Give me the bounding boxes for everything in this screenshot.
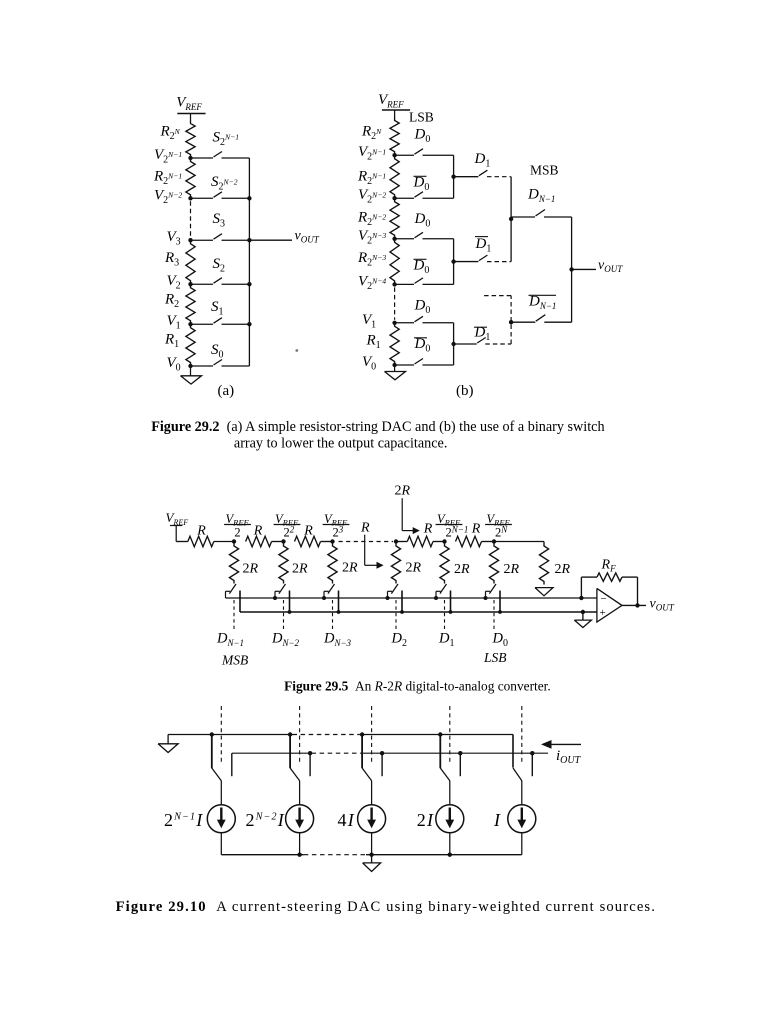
node VREF/2^(N-1) junction bbox=[442, 539, 446, 543]
arrow iOUT direction bbox=[548, 743, 582, 745]
switch D0 third bbox=[395, 322, 414, 324]
switch D1bar first bbox=[454, 261, 479, 263]
resistor R2N-1 (a) bbox=[186, 158, 195, 198]
resistor R second (R-2R) bbox=[246, 536, 272, 546]
node top bus junction cell 2 bbox=[288, 732, 292, 736]
node VREF/4 junction bbox=[281, 539, 285, 543]
svg-text:V2N−1: V2N−1 bbox=[358, 144, 386, 163]
node VREF/8 junction bbox=[330, 539, 334, 543]
wire group bar 2 (b) bbox=[453, 239, 455, 285]
wire upper bus (R-2R) bbox=[226, 597, 597, 599]
svg-text:DN−1: DN−1 bbox=[527, 186, 555, 204]
node junction dashed-solid (R-2R) bbox=[394, 539, 398, 543]
node vOUT junction (b) bbox=[569, 267, 573, 271]
resistor 2R bit N-2 bbox=[279, 542, 288, 584]
switch steering cell 4 bbox=[439, 735, 441, 769]
svg-text:2N: 2N bbox=[495, 525, 508, 540]
svg-text:22: 22 bbox=[284, 525, 295, 540]
wire VREF rail to resistor R2N bbox=[190, 114, 192, 121]
switch steering cell 1 bbox=[211, 735, 213, 769]
svg-text:V0: V0 bbox=[362, 354, 376, 373]
node VREF/2 junction bbox=[232, 539, 236, 543]
node iOUT bus junction cell 4 bbox=[458, 751, 462, 755]
wire dashed control line cell 5 bbox=[521, 706, 523, 762]
resistor R2N-2 bbox=[390, 198, 399, 239]
svg-text:D0: D0 bbox=[414, 127, 431, 146]
svg-text:+: + bbox=[600, 607, 606, 619]
resistor 2R terminating bbox=[539, 542, 548, 585]
svg-text:D1: D1 bbox=[474, 151, 491, 170]
svg-text:V2N−2: V2N−2 bbox=[358, 187, 386, 206]
wire to vOUT (b) bbox=[572, 268, 596, 270]
svg-text:2R: 2R bbox=[555, 562, 571, 577]
node output junction (R-2R) bbox=[635, 603, 639, 607]
ground terminating resistor bbox=[535, 588, 553, 596]
svg-text:D0: D0 bbox=[414, 211, 431, 230]
op-amp U1 bbox=[597, 588, 622, 622]
switch DN-1 bbox=[511, 216, 535, 218]
switch bit at x=332.5 (R-2R) bbox=[324, 590, 329, 592]
svg-text:V1: V1 bbox=[362, 312, 376, 331]
wire VREF rail to resistor R2N (b) bbox=[394, 110, 396, 117]
svg-text:2R: 2R bbox=[406, 561, 422, 576]
node V2N-3 junction bbox=[392, 237, 396, 241]
svg-text:R3: R3 bbox=[164, 250, 179, 269]
svg-text:V3: V3 bbox=[167, 229, 181, 248]
switch D0bar third bbox=[395, 364, 414, 366]
svg-text:S2N−2: S2N−2 bbox=[211, 174, 238, 193]
svg-text:Figure 29.2 (a) A simple resi: Figure 29.2 (a) A simple resistor-string… bbox=[151, 419, 604, 435]
ground bottom (29.10) bbox=[371, 855, 373, 863]
switch bit at x=444.5 (R-2R) bbox=[436, 590, 441, 592]
resistor R2 bbox=[186, 284, 195, 324]
wire current source to bottom bus cell 5 bbox=[521, 833, 523, 855]
svg-text:V0: V0 bbox=[167, 355, 181, 374]
junction dots lower bus bbox=[288, 610, 292, 614]
wire current source to bottom bus cell 1 bbox=[220, 833, 222, 855]
svg-text:D0: D0 bbox=[492, 631, 508, 650]
resistor R2N-1 (b) bbox=[390, 155, 399, 198]
wire feedback down to output bbox=[637, 577, 639, 605]
current source cell 2 bbox=[286, 805, 314, 833]
node V1 (a) junction bbox=[188, 322, 192, 326]
wire switch to current source cell 3 bbox=[371, 781, 373, 805]
wire dashed control line cell 3 bbox=[371, 706, 373, 762]
resistor 2R bit 1 bbox=[440, 542, 449, 584]
svg-text:R2N−1: R2N−1 bbox=[153, 168, 182, 187]
switch S2N-1 bbox=[191, 157, 214, 159]
wire switch to current source cell 1 bbox=[220, 781, 222, 805]
node group 3 output junction bbox=[451, 342, 455, 346]
wire bottom bus (29.10) bbox=[221, 854, 303, 856]
node V3 junction bbox=[188, 238, 192, 242]
svg-text:2R: 2R bbox=[342, 561, 358, 576]
svg-text:R: R bbox=[471, 522, 481, 537]
svg-text:2R: 2R bbox=[395, 484, 411, 499]
svg-text:D0: D0 bbox=[414, 298, 431, 317]
svg-text:VREF: VREF bbox=[378, 92, 404, 110]
svg-text:vOUT: vOUT bbox=[650, 597, 675, 613]
svg-text:R: R bbox=[196, 524, 206, 539]
ground (a) bbox=[190, 366, 192, 376]
switch bit at x=283.5 (R-2R) bbox=[275, 590, 280, 592]
svg-text:D0: D0 bbox=[413, 174, 430, 193]
svg-text:R2N: R2N bbox=[160, 124, 181, 143]
switch S1 bbox=[191, 323, 214, 325]
svg-text:V2N−4: V2N−4 bbox=[358, 273, 386, 292]
node V2N-1 (a) junction bbox=[188, 156, 192, 160]
svg-text:LSB: LSB bbox=[483, 650, 507, 665]
wire dashed control line at x=234 (R-2R) bbox=[233, 600, 235, 631]
svg-text:2N−1I: 2N−1I bbox=[164, 810, 203, 830]
switch S2 bbox=[191, 283, 214, 285]
junction dots on output bus (a) bbox=[247, 196, 251, 200]
resistor R1 (a) bbox=[186, 324, 195, 366]
wire iOUT bus (29.10) bbox=[232, 752, 312, 754]
svg-text:2R: 2R bbox=[243, 562, 259, 577]
resistor R2N (a) bbox=[186, 120, 195, 158]
wire to vOUT (a) bbox=[249, 239, 292, 241]
svg-text:2R: 2R bbox=[454, 562, 470, 577]
switch bit at x=396 (R-2R) bbox=[388, 590, 393, 592]
svg-text:vOUT: vOUT bbox=[598, 258, 623, 274]
node group 1 output junction bbox=[451, 175, 455, 179]
svg-text:23: 23 bbox=[333, 525, 344, 540]
svg-text:S0: S0 bbox=[211, 342, 224, 361]
node V2N-4 junction bbox=[392, 282, 396, 286]
svg-text:DN−1: DN−1 bbox=[528, 294, 556, 312]
wire feedback up bbox=[580, 577, 582, 598]
switch D1 bbox=[454, 176, 479, 178]
node group 2 output junction bbox=[451, 259, 455, 263]
resistor R fourth (R-2R) bbox=[396, 541, 407, 543]
svg-text:DN−2: DN−2 bbox=[271, 631, 300, 649]
svg-text:iOUT: iOUT bbox=[556, 748, 582, 766]
switch S0 bbox=[191, 365, 214, 367]
switch bit at x=494 (R-2R) bbox=[486, 590, 491, 592]
node top bus junction cell 4 bbox=[438, 732, 442, 736]
wire current source to bottom bus cell 4 bbox=[449, 833, 451, 855]
node V2 junction bbox=[188, 282, 192, 286]
switch S2N-2 bbox=[191, 197, 214, 199]
svg-text:D1: D1 bbox=[438, 631, 454, 650]
svg-text:R2N−3: R2N−3 bbox=[357, 250, 386, 269]
switch DN-1bar bbox=[511, 321, 535, 323]
svg-text:D0: D0 bbox=[414, 336, 431, 355]
switch D0bar first bbox=[395, 197, 414, 199]
wire output bus (a) bbox=[248, 158, 250, 366]
current source cell 1 bbox=[207, 805, 235, 833]
junction dots upper bus bbox=[273, 596, 277, 600]
svg-text:S2: S2 bbox=[213, 256, 226, 275]
svg-text:2R: 2R bbox=[292, 562, 308, 577]
wire dashed control line cell 1 bbox=[220, 706, 222, 762]
switch steering cell 2 bbox=[289, 735, 291, 769]
svg-text:(a): (a) bbox=[218, 383, 235, 399]
svg-text:D1: D1 bbox=[475, 236, 492, 255]
svg-text:R: R bbox=[423, 522, 433, 537]
resistor RF bbox=[581, 576, 597, 578]
wire dashed control line at x=396 (R-2R) bbox=[395, 600, 397, 631]
ground at op-amp plus input bbox=[582, 612, 584, 620]
svg-text:4I: 4I bbox=[338, 810, 355, 830]
svg-text:2: 2 bbox=[234, 526, 240, 540]
svg-text:R2N−2: R2N−2 bbox=[357, 209, 386, 228]
node bottom bus junction cell 2 bbox=[297, 853, 301, 857]
wire top ground bus (29.10) bbox=[168, 734, 292, 736]
switch D0bar second bbox=[395, 283, 414, 285]
wire op-amp output bbox=[622, 604, 646, 606]
wire dashed resistor-string continuation (a) bbox=[190, 201, 192, 237]
switch steering cell 5 bbox=[512, 735, 514, 768]
svg-text:V2N−3: V2N−3 bbox=[358, 228, 386, 247]
switch D1bar second bbox=[454, 343, 477, 345]
wire switch to current source cell 5 bbox=[521, 781, 523, 805]
svg-text:R1: R1 bbox=[164, 331, 179, 350]
svg-text:R: R bbox=[303, 524, 313, 539]
svg-text:−: − bbox=[601, 593, 607, 605]
wire rail to terminating resistor bbox=[494, 541, 544, 543]
svg-text:D0: D0 bbox=[413, 257, 430, 276]
svg-text:VREF: VREF bbox=[166, 510, 189, 527]
svg-text:V2: V2 bbox=[167, 273, 181, 292]
wire current source to bottom bus cell 3 bbox=[371, 833, 373, 855]
speck artifact bbox=[295, 349, 298, 352]
node bottom bus junction cell 3 bbox=[369, 853, 373, 857]
resistor 2R bit N-1 bbox=[229, 542, 238, 584]
VREF rail (b) bbox=[382, 109, 410, 111]
svg-text:Figure 29.10 A current-steeri: Figure 29.10 A current-steering DAC usin… bbox=[116, 899, 656, 915]
figure 29.2(a) VREF rail bbox=[177, 113, 205, 115]
wire dashed control line at x=332.5 (R-2R) bbox=[332, 600, 334, 631]
resistor R1 (b) bbox=[390, 323, 399, 365]
svg-text:2R: 2R bbox=[504, 562, 520, 577]
wire group bar 3 (b) bbox=[453, 323, 455, 365]
switch D0 first bbox=[395, 154, 414, 156]
svg-text:vOUT: vOUT bbox=[295, 228, 320, 244]
svg-text:DN−1: DN−1 bbox=[216, 631, 244, 649]
svg-text:S3: S3 bbox=[213, 211, 226, 230]
wire dashed control line cell 2 bbox=[299, 706, 301, 762]
node V1 (b) junction bbox=[392, 321, 396, 325]
node bottom bus junction cell 4 bbox=[448, 853, 452, 857]
node iOUT bus junction cell 2 bbox=[308, 751, 312, 755]
svg-text:2N−2I: 2N−2I bbox=[246, 810, 285, 830]
resistor R2N (b) bbox=[390, 117, 399, 155]
node V2N-2 (b) junction bbox=[392, 196, 396, 200]
svg-text:R: R bbox=[360, 521, 370, 536]
switch bit at x=234 (R-2R) bbox=[226, 590, 231, 592]
resistor R third (R-2R) bbox=[295, 536, 321, 546]
node D(N-1)bar input junction bbox=[509, 320, 513, 324]
resistor R2N-3 bbox=[390, 239, 399, 285]
svg-text:R2N−1: R2N−1 bbox=[357, 168, 386, 187]
svg-text:R: R bbox=[253, 524, 263, 539]
switch S3 bbox=[191, 239, 214, 241]
svg-text:Figure 29.5 An R-2R digital-t: Figure 29.5 An R-2R digital-to-analog co… bbox=[284, 679, 551, 694]
node top bus junction cell 3 bbox=[360, 732, 364, 736]
current source cell 3 bbox=[358, 805, 386, 833]
svg-text:R1: R1 bbox=[366, 333, 381, 352]
node V2N-1 (b) junction bbox=[392, 153, 396, 157]
node level-2 output junction bbox=[509, 217, 513, 221]
svg-text:R2: R2 bbox=[164, 292, 179, 311]
svg-text:2I: 2I bbox=[417, 810, 434, 830]
switch steering cell 3 bbox=[361, 735, 363, 769]
svg-text:MSB: MSB bbox=[221, 653, 248, 668]
wire group bar 1 (b) bbox=[453, 155, 455, 198]
node V0 (a) junction bbox=[188, 364, 192, 368]
svg-text:MSB: MSB bbox=[530, 163, 559, 178]
svg-text:V1: V1 bbox=[167, 313, 181, 332]
node top bus junction cell 1 bbox=[210, 732, 214, 736]
resistor 2R bit 0 bbox=[489, 542, 498, 584]
wire switch to current source cell 4 bbox=[449, 781, 451, 805]
node iOUT bus junction cell 3 bbox=[380, 751, 384, 755]
ground top-left (29.10) bbox=[167, 735, 169, 744]
resistor R first (R-2R) bbox=[176, 541, 188, 543]
resistor R3 bbox=[186, 240, 195, 284]
svg-text:VREF: VREF bbox=[176, 95, 202, 113]
wire current source to bottom bus cell 2 bbox=[299, 833, 301, 855]
current source cell 4 bbox=[436, 805, 464, 833]
node V0 (b) junction bbox=[392, 363, 396, 367]
ground (b) bbox=[394, 365, 396, 372]
node ground tap junction (R-2R) bbox=[581, 610, 585, 614]
wire dashed level-2 continuation bar bbox=[510, 296, 512, 344]
node feedback tap junction bbox=[579, 596, 583, 600]
current source cell 5 bbox=[508, 805, 536, 833]
svg-text:V2N−2: V2N−2 bbox=[154, 187, 182, 206]
wire lower bus (R-2R) bbox=[240, 611, 597, 613]
node VREF/2^N junction bbox=[492, 539, 496, 543]
wire dashed rail continuation (R-2R) bbox=[339, 541, 394, 543]
resistor 2R bit 2 bbox=[391, 542, 400, 584]
svg-text:V2N−1: V2N−1 bbox=[154, 147, 182, 166]
wire level-2 bar (b) bbox=[510, 177, 512, 262]
svg-text:S2N−1: S2N−1 bbox=[213, 130, 240, 149]
wire dashed control line at x=444.5 (R-2R) bbox=[444, 600, 446, 631]
svg-text:I: I bbox=[493, 810, 501, 830]
svg-text:array to lower the output capa: array to lower the output capacitance. bbox=[234, 435, 448, 451]
wire dashed resistor-string continuation (b) bbox=[394, 287, 396, 319]
svg-text:S1: S1 bbox=[211, 299, 224, 318]
wire VREF stub (R-2R) bbox=[175, 526, 177, 542]
node iOUT bus junction cell 5 bbox=[530, 751, 534, 755]
svg-text:D2: D2 bbox=[391, 631, 407, 650]
svg-text:LSB: LSB bbox=[409, 110, 434, 125]
wire switch to current source cell 2 bbox=[299, 781, 301, 805]
switch D0 second bbox=[395, 238, 414, 240]
svg-text:DN−3: DN−3 bbox=[323, 631, 352, 649]
svg-text:RF: RF bbox=[601, 557, 617, 573]
resistor R fifth (R-2R) bbox=[456, 536, 482, 546]
wire dashed control line at x=494 (R-2R) bbox=[493, 600, 495, 631]
node V2N-2 (a) junction bbox=[188, 196, 192, 200]
wire dashed control line at x=283.5 (R-2R) bbox=[283, 600, 285, 631]
svg-text:R2N: R2N bbox=[361, 124, 382, 143]
svg-text:(b): (b) bbox=[456, 383, 474, 399]
wire dashed control line cell 4 bbox=[449, 706, 451, 762]
resistor 2R bit N-3 bbox=[328, 542, 337, 584]
wire level-3 bar (b) bbox=[571, 217, 573, 322]
